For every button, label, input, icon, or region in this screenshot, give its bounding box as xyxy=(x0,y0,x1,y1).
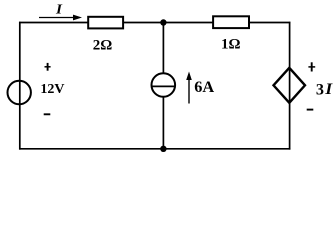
node bottom junction dot xyxy=(160,146,166,152)
label minus of D1 xyxy=(307,109,314,111)
wire top-middle horizontal xyxy=(123,22,213,24)
svg-text:1Ω: 1Ω xyxy=(221,37,241,53)
arrow 6A xyxy=(186,72,192,104)
wire top-right horizontal xyxy=(249,22,290,24)
wire right vertical xyxy=(289,22,291,150)
wire middle vertical lower xyxy=(162,97,164,149)
svg-text:2Ω: 2Ω xyxy=(93,38,113,54)
svg-text:3: 3 xyxy=(316,81,324,99)
label minus of V1 xyxy=(44,113,51,115)
svg-text:I: I xyxy=(324,80,333,98)
current source I1 chord xyxy=(152,85,176,87)
wire bottom horizontal xyxy=(19,148,290,150)
label plus of V1 xyxy=(45,63,51,71)
node top junction dot xyxy=(160,19,166,25)
svg-text:12V: 12V xyxy=(40,82,64,97)
voltage source V1 circle xyxy=(8,81,31,104)
current arrow I xyxy=(39,15,82,21)
wire middle vertical upper xyxy=(162,23,164,74)
wire left vertical xyxy=(19,22,21,150)
resistor R2 1ohm xyxy=(213,16,249,28)
current source I1 circle xyxy=(152,73,176,97)
dependent source D1 diamond xyxy=(274,68,306,103)
label plus of D1 xyxy=(308,62,315,71)
svg-text:6A: 6A xyxy=(194,77,214,96)
wire top-left horizontal xyxy=(19,22,88,24)
svg-text:I: I xyxy=(55,3,63,18)
resistor R1 2ohm xyxy=(88,17,123,29)
